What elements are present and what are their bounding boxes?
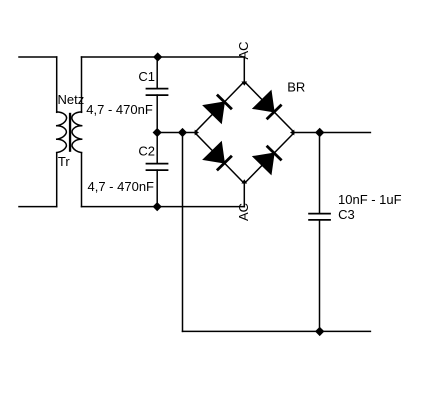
junction dot bottom out rail / C3 <box>315 327 324 336</box>
diode D4 cathode bar <box>267 146 282 161</box>
wire mains top stub <box>19 56 57 58</box>
capacitor C2 plates <box>146 163 169 165</box>
transformer Tr secondary winding <box>72 112 83 153</box>
diode D4 triangle <box>253 153 274 174</box>
transformer core <box>69 113 71 152</box>
junction dot bottom rail / C2 <box>153 202 162 211</box>
bridge BR edge bottom-right <box>244 133 294 184</box>
capacitor C3 plates <box>308 213 331 215</box>
wire mid link to bridge minus <box>157 132 195 134</box>
wire bridge plus output <box>294 132 370 134</box>
svg-text:10nF - 1uF: 10nF - 1uF <box>338 192 402 207</box>
capacitor C1 plates <box>146 88 169 90</box>
wire bottom rail <box>82 206 245 208</box>
svg-text:Netz: Netz <box>58 92 85 107</box>
wire C3 top lead <box>319 133 321 214</box>
wire C2 bottom lead <box>156 170 158 207</box>
svg-text:C1: C1 <box>138 69 155 84</box>
pin marker minus vertex <box>195 130 199 136</box>
wire secondary bottom <box>81 153 83 207</box>
diode D3 triangle <box>203 142 224 163</box>
wire primary bottom <box>56 153 58 207</box>
diode D1 triangle <box>203 102 224 123</box>
diode D2 cathode bar <box>267 105 282 120</box>
svg-text:C2: C2 <box>138 143 155 158</box>
svg-text:4,7 - 470nF: 4,7 - 470nF <box>88 179 155 194</box>
wire C1 bottom lead <box>156 95 158 132</box>
wire mid drop to bottom out rail <box>182 133 184 332</box>
svg-text:Tr: Tr <box>58 154 70 169</box>
svg-text:AC: AC <box>236 41 251 59</box>
junction dot mid node down wire <box>178 128 187 137</box>
wire C2 top lead <box>156 133 158 164</box>
wire bridge AC-bottom drop <box>243 184 245 207</box>
pin marker AC-bottom vertex <box>241 179 247 183</box>
wire mains bottom stub <box>19 206 57 208</box>
wire secondary top riser <box>81 57 83 112</box>
wire C1 top lead <box>156 57 158 89</box>
transformer Tr primary winding <box>56 112 67 153</box>
wire C3 bottom lead <box>319 220 321 332</box>
junction dot top rail / C1 <box>153 52 162 61</box>
svg-text:AC: AC <box>236 203 251 221</box>
diode D3 cathode bar <box>217 156 232 171</box>
wire bottom output rail <box>183 330 371 332</box>
wire top rail <box>82 56 245 58</box>
bridge BR edge top-left <box>195 82 245 133</box>
wire primary top drop <box>56 57 58 112</box>
pin marker plus vertex <box>290 130 294 136</box>
diode D2 triangle <box>253 91 274 112</box>
junction dot plus rail / C3 <box>315 128 324 137</box>
bridge BR edge top-right <box>244 82 294 133</box>
diode D1 cathode bar <box>217 95 232 110</box>
pin marker AC-top vertex <box>241 82 247 86</box>
bridge BR edge bottom-left <box>195 133 245 184</box>
svg-text:BR: BR <box>287 79 305 94</box>
svg-text:4,7 - 470nF: 4,7 - 470nF <box>86 102 153 117</box>
wire bridge AC-top drop <box>243 57 245 82</box>
svg-text:C3: C3 <box>338 207 355 222</box>
junction dot mid node C1-C2 <box>153 128 162 137</box>
